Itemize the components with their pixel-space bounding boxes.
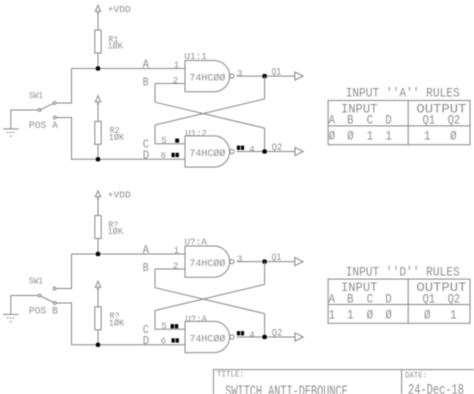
- wire B input: [155, 83, 185, 85]
- svg-text:1ØK: 1ØK: [108, 42, 124, 52]
- svg-text:1: 1: [385, 129, 392, 144]
- NAND gate U1:1 (74HC00): [185, 61, 230, 92]
- switch SW1: [53, 102, 56, 105]
- wire vertical to Q2 junction: [264, 314, 266, 337]
- svg-text:Q2: Q2: [272, 143, 283, 154]
- wire vertical from Q1 junction: [264, 262, 266, 285]
- power +VDD symbol (R? branch): [95, 281, 100, 287]
- svg-text:SW1: SW1: [29, 277, 43, 287]
- svg-text:C: C: [367, 113, 374, 128]
- svg-text:B: B: [143, 261, 149, 275]
- wire node D horizontal: [98, 158, 185, 160]
- wire switch common to ground: [11, 296, 38, 315]
- svg-text:U1:2: U1:2: [185, 129, 207, 139]
- svg-text:Q2: Q2: [448, 113, 461, 128]
- svg-text:1: 1: [329, 307, 336, 322]
- wire R? to node D: [97, 330, 99, 345]
- wire B input: [155, 268, 185, 270]
- svg-text:Q1: Q1: [423, 291, 436, 306]
- svg-text:U1:1: U1:1: [184, 52, 207, 62]
- svg-text:C: C: [367, 291, 374, 306]
- wire switch lower contact to node D: [56, 118, 96, 160]
- svg-text:Q1: Q1: [272, 67, 282, 78]
- wire R2 to node D: [97, 144, 99, 159]
- wire cross diagonal B to Q2: [155, 288, 265, 314]
- table divider vertical: [407, 101, 409, 145]
- svg-text:3: 3: [237, 255, 242, 265]
- table INPUT "D" RULES box: [328, 279, 470, 323]
- table divider horizontal: [328, 304, 470, 306]
- svg-text:D: D: [385, 291, 392, 306]
- svg-text:B: B: [347, 291, 354, 306]
- svg-text:6: 6: [161, 337, 166, 347]
- title block box: [214, 370, 474, 394]
- svg-text:A: A: [143, 58, 150, 72]
- resistor R?: [95, 216, 101, 239]
- port arrow Q1: [295, 258, 303, 266]
- pin 5 marker: [175, 139, 179, 143]
- svg-text:A: A: [143, 243, 150, 257]
- wire C input: [155, 328, 185, 330]
- wire node A to switch: [56, 254, 72, 289]
- switch SW1: [53, 287, 56, 290]
- svg-text:A: A: [328, 291, 335, 306]
- wire vertical to Q2 junction: [264, 128, 266, 151]
- pin 6 marker: [172, 153, 175, 157]
- NAND gate U1:2 (74HC00): [185, 136, 230, 167]
- table divider horizontal: [328, 125, 470, 127]
- svg-text:POS B: POS B: [29, 306, 58, 317]
- svg-text:74HCØØ: 74HCØØ: [189, 333, 225, 345]
- junction node A: [96, 66, 100, 70]
- wire node A to switch: [56, 69, 72, 104]
- svg-text:SWITCH ANTI-DEBOUNCE: SWITCH ANTI-DEBOUNCE: [225, 384, 348, 394]
- svg-text:+VDD: +VDD: [108, 4, 131, 15]
- wire node A horizontal: [72, 68, 186, 70]
- junction Q1: [263, 260, 267, 264]
- junction node D: [96, 343, 100, 347]
- wire node D horizontal: [98, 344, 185, 346]
- svg-text:Ø: Ø: [329, 129, 336, 144]
- svg-text:INPUT ''D'' RULES: INPUT ''D'' RULES: [346, 265, 460, 279]
- wire R? to node A: [97, 239, 99, 255]
- svg-text:INPUT ''A'' RULES: INPUT ''A'' RULES: [346, 87, 460, 101]
- junction Q2: [263, 335, 267, 339]
- wire R1 to node A: [97, 53, 99, 69]
- svg-text:1ØK: 1ØK: [109, 133, 125, 143]
- svg-text:Q2: Q2: [272, 328, 283, 339]
- svg-text:2: 2: [173, 261, 178, 271]
- svg-text:Ø: Ø: [450, 129, 457, 144]
- wire cross diagonal Q1 to C: [155, 284, 265, 310]
- svg-text:DATE:: DATE:: [405, 370, 427, 380]
- svg-text:24-Dec-18: 24-Dec-18: [408, 382, 464, 394]
- svg-text:74HCØØ: 74HCØØ: [189, 148, 225, 160]
- svg-text:SW1: SW1: [29, 91, 43, 101]
- svg-text:1: 1: [450, 307, 457, 322]
- svg-text:1: 1: [174, 246, 179, 256]
- ground: [3, 313, 18, 315]
- svg-text:74HCØØ: 74HCØØ: [189, 258, 225, 270]
- resistor R2: [95, 121, 101, 144]
- svg-text:+VDD: +VDD: [108, 190, 131, 201]
- pin 5 marker: [171, 324, 174, 328]
- table INPUT "A" RULES box: [328, 101, 470, 145]
- svg-text:1: 1: [367, 129, 374, 144]
- svg-text:6: 6: [161, 151, 166, 161]
- port arrow Q2: [295, 333, 303, 341]
- svg-text:5: 5: [161, 136, 166, 146]
- svg-text:Ø: Ø: [385, 307, 392, 322]
- ground: [3, 128, 18, 130]
- wire vertical from Q1 junction: [264, 76, 266, 99]
- wire switch lower contact to node D: [56, 303, 96, 345]
- wire C vertical: [154, 125, 156, 144]
- wire cross diagonal Q1 to C: [155, 99, 265, 125]
- port arrow Q1: [295, 72, 303, 80]
- pin 4 marker: [237, 331, 240, 335]
- resistor R1: [95, 30, 101, 53]
- svg-text:Ø: Ø: [367, 307, 374, 322]
- power +VDD symbol (R2 branch): [95, 96, 100, 102]
- junction Q2: [263, 149, 267, 153]
- wire C vertical: [154, 311, 156, 330]
- power +VDD symbol (R1 branch): [95, 5, 100, 11]
- svg-text:TITLE:: TITLE:: [217, 370, 244, 380]
- NAND gate U?:A (74HC00): [185, 246, 230, 277]
- svg-text:5: 5: [161, 322, 166, 332]
- table divider vertical: [407, 279, 409, 323]
- svg-text:1: 1: [347, 307, 354, 322]
- junction node A: [96, 252, 100, 256]
- svg-text:Ø: Ø: [347, 129, 354, 144]
- port arrow Q2: [295, 147, 303, 155]
- svg-text:Ø: Ø: [424, 307, 431, 322]
- power +VDD symbol (R? branch): [95, 191, 100, 197]
- svg-text:4: 4: [249, 145, 254, 155]
- svg-text:B: B: [347, 113, 354, 128]
- wire gate2 output to port Q2: [237, 336, 295, 338]
- resistor R?: [95, 307, 101, 330]
- svg-text:D: D: [143, 334, 149, 348]
- svg-text:4: 4: [249, 331, 254, 341]
- svg-text:A: A: [328, 113, 335, 128]
- svg-text:Q2: Q2: [448, 291, 461, 306]
- svg-text:3: 3: [237, 69, 242, 79]
- svg-text:1: 1: [424, 129, 431, 144]
- svg-text:2: 2: [173, 76, 178, 86]
- NAND gate U?:A (74HC00): [185, 321, 230, 352]
- junction node D: [96, 157, 100, 161]
- svg-text:74HCØØ: 74HCØØ: [189, 73, 225, 85]
- wire cross diagonal B to Q2: [155, 102, 265, 128]
- title block divider: [401, 370, 403, 394]
- svg-text:POS A: POS A: [29, 121, 58, 132]
- wire gate1 output to port Q1: [237, 261, 295, 263]
- pin 4 marker: [237, 146, 240, 150]
- svg-text:D: D: [143, 149, 149, 163]
- svg-text:1ØK: 1ØK: [109, 318, 125, 328]
- pin 6 marker: [172, 338, 175, 342]
- svg-text:U?:A: U?:A: [184, 238, 207, 248]
- wire gate1 output to port Q1: [237, 75, 295, 77]
- svg-text:Q1: Q1: [423, 113, 436, 128]
- svg-text:Q1: Q1: [272, 253, 282, 264]
- wire B vertical: [154, 269, 156, 288]
- svg-text:1: 1: [174, 61, 179, 71]
- svg-text:D: D: [385, 113, 392, 128]
- wire C input: [155, 143, 185, 145]
- svg-text:1ØK: 1ØK: [108, 227, 124, 237]
- wire gate2 output to port Q2: [237, 151, 295, 153]
- wire switch common to ground: [11, 110, 38, 129]
- svg-text:B: B: [143, 76, 149, 90]
- wire B vertical: [154, 84, 156, 103]
- wire node A horizontal: [72, 253, 186, 255]
- junction Q1: [263, 74, 267, 78]
- svg-text:U?:A: U?:A: [185, 315, 207, 325]
